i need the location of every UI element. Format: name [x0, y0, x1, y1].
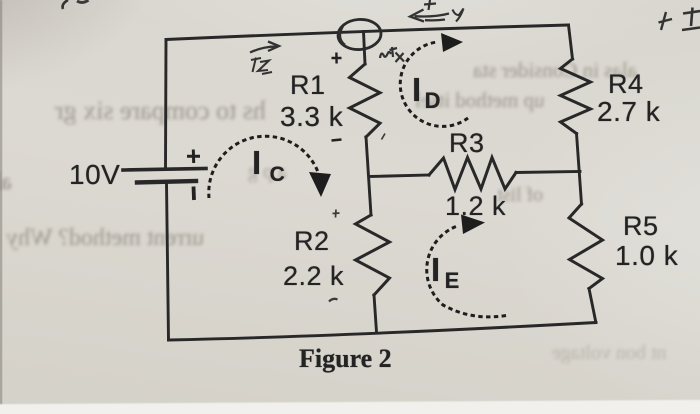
bleed-through mirrored text line 4 — [415, 88, 545, 113]
handwritten circled node x (ellipse) — [337, 18, 382, 51]
handwritten Iz arrow — [250, 42, 279, 53]
stray mark top edge — [77, 0, 87, 3]
loop current IC dashed arc — [209, 136, 318, 198]
caption Figure 2 — [299, 344, 392, 374]
polarity plus at source — [187, 150, 200, 164]
handwritten partial parenthesis top-left — [63, 0, 68, 9]
wire middle bottom (R2 to bottom wire) — [374, 295, 377, 332]
label 2.7 k — [597, 96, 660, 128]
wire left lower (from source - plate down to bottom-left corner) — [167, 183, 169, 340]
wire right middle (R4 bottom to R5 top, through node with R3) — [577, 134, 582, 205]
wire bottom — [169, 323, 597, 341]
label R4 — [608, 69, 644, 100]
handwritten Iz text — [251, 58, 272, 75]
label 1.0 k — [615, 240, 678, 272]
loop current IE arrowhead — [461, 215, 485, 235]
handwritten plus top-right — [659, 12, 673, 30]
bleed-through mirrored text line 1 — [55, 96, 266, 126]
label IE — [431, 251, 460, 294]
handwritten plus-minus partial top-right edge — [682, 8, 700, 31]
polarity minus at R1 bottom — [332, 140, 342, 141]
label ID — [412, 71, 441, 114]
loop current IE dashed arc — [427, 227, 506, 317]
resistor R3 zigzag — [429, 158, 516, 190]
resistor R1 zigzag — [350, 64, 381, 137]
handwritten top arrow head — [410, 10, 424, 22]
bleed-through mirrored text line 6 — [552, 342, 666, 365]
bleed-through mirrored text line 2 — [6, 225, 204, 252]
loop current ID arrowhead — [441, 33, 463, 52]
label R1 — [290, 70, 326, 101]
handwritten top arrow shaft — [415, 14, 450, 21]
handwritten dash below R2 — [329, 299, 338, 302]
bleed-through mirrored text line 3 — [473, 58, 637, 83]
label R5 — [623, 211, 659, 242]
white paper strip at bottom — [0, 399, 700, 414]
resistor R2 zigzag — [356, 215, 390, 295]
label 3.3 k — [280, 101, 343, 133]
polarity plus at R1 top — [332, 53, 342, 64]
label R2 — [294, 226, 330, 257]
polarity bar at source minus — [192, 187, 196, 201]
resistor R5 zigzag — [569, 204, 603, 289]
bleed-through mark near battery — [248, 161, 287, 184]
handwritten plus above R2 — [333, 210, 340, 218]
wire left upper (from top-left corner down to source + plate) — [164, 40, 167, 169]
label 2.2 k — [283, 261, 344, 292]
handwritten wTx scribble right of node — [380, 47, 404, 62]
label R3 — [449, 128, 485, 159]
wire top (node x to top-right corner) — [166, 25, 569, 40]
loop current ID dashed arc — [400, 42, 468, 126]
label 10V — [69, 159, 120, 191]
handwritten circled node x second stroke — [340, 26, 345, 45]
handwritten y right of arrow — [453, 9, 464, 22]
wire right lower (R5 bottom to bottom-right corner) — [589, 289, 596, 323]
loop current IC arrowhead — [309, 172, 331, 197]
wire middle between R1 and R2 (through node with R3) — [366, 137, 371, 215]
handwritten tick near R1 bottom right — [382, 134, 386, 140]
wire R3 left stub — [370, 175, 429, 177]
handwritten t above arrow — [424, 0, 436, 10]
bleed-through mirrored text line 5 — [497, 184, 543, 207]
resistor R4 zigzag — [561, 59, 591, 134]
label 1.2 k — [445, 191, 506, 222]
voltage source plus plate — [123, 169, 206, 171]
photo edge shadow left — [0, 0, 2, 414]
label IC — [252, 144, 285, 187]
wire right upper (top-right corner down to R4) — [569, 25, 573, 59]
voltage source minus plate — [137, 181, 196, 183]
bleed-through blob left edge — [0, 169, 12, 195]
wire R3 right stub — [516, 172, 580, 173]
wire middle top (node x down to R1) — [364, 32, 366, 65]
